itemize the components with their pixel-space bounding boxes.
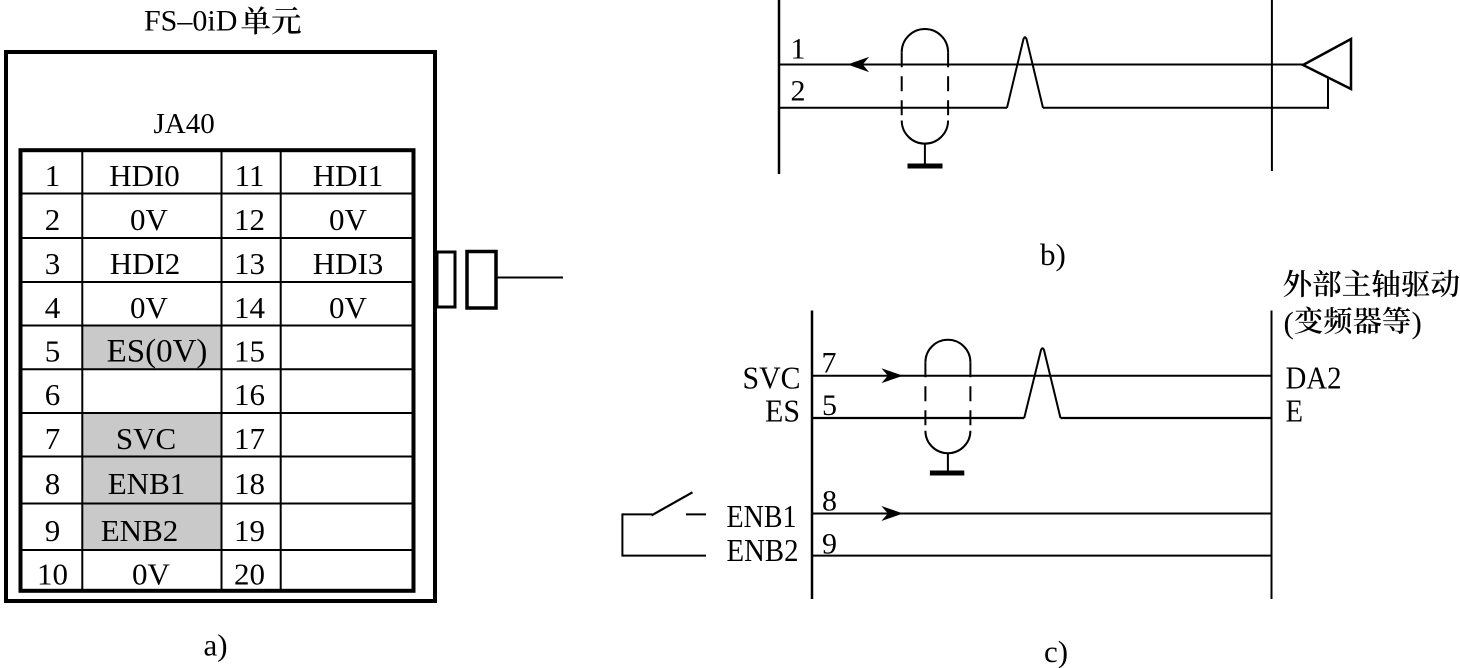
label external spindle drive <box>1284 270 1460 298</box>
svg-text:HDI0: HDI0 <box>109 158 180 193</box>
wire ES right <box>1061 417 1272 419</box>
svg-text:8: 8 <box>45 466 61 501</box>
svg-text:20: 20 <box>234 556 265 591</box>
svg-text:14: 14 <box>234 290 266 325</box>
wire ES left <box>812 417 1024 419</box>
connector JA40 shaded pins 5,7,8,9 <box>82 326 221 551</box>
ground bar (b) <box>908 164 943 169</box>
wire pin2 (b) left <box>779 107 1007 109</box>
connector plug outer rect <box>467 252 496 309</box>
svg-text:JA40: JA40 <box>154 108 215 140</box>
wire pin1 (b) <box>779 64 1303 66</box>
svg-text:2: 2 <box>45 202 61 237</box>
bus drive side (b) <box>1271 0 1273 171</box>
svg-text:FS–0iD: FS–0iD <box>144 5 237 38</box>
ground bar (c) <box>930 471 964 476</box>
svg-text:10: 10 <box>37 556 68 591</box>
svg-text:0V: 0V <box>130 290 169 325</box>
svg-text:0V: 0V <box>329 290 368 325</box>
svg-text:9: 9 <box>45 513 61 548</box>
cable shield (b) <box>902 29 948 144</box>
ground stem (b) <box>924 144 926 164</box>
svg-text:SVC: SVC <box>116 421 176 456</box>
svg-text:ENB2: ENB2 <box>101 513 179 548</box>
svg-text:a): a) <box>204 628 228 663</box>
ground stem (c) <box>947 453 949 470</box>
svg-text:c): c) <box>1044 634 1068 668</box>
svg-text:7: 7 <box>822 347 837 380</box>
connector JA40 pin table grid <box>21 150 414 591</box>
wire pin2 up to amplifier <box>1327 77 1329 109</box>
title FS-0iD unit <box>144 5 301 38</box>
svg-text:ENB1: ENB1 <box>727 498 797 534</box>
svg-text:): ) <box>1412 305 1422 340</box>
svg-text:5: 5 <box>45 333 61 368</box>
cable shield (c) <box>925 340 970 453</box>
svg-text:DA2: DA2 <box>1286 360 1342 396</box>
svg-text:HDI3: HDI3 <box>313 246 384 281</box>
svg-text:b): b) <box>1040 237 1066 272</box>
svg-text:7: 7 <box>45 421 61 456</box>
cable break symbol (b) <box>1007 37 1043 108</box>
amplifier triangle (b) <box>1303 39 1351 89</box>
svg-text:ENB2: ENB2 <box>727 532 799 568</box>
svg-text:12: 12 <box>234 202 265 237</box>
svg-text:(: ( <box>1284 305 1294 340</box>
svg-text:HDI1: HDI1 <box>313 158 384 193</box>
wire SVC <box>812 375 1272 377</box>
svg-text:15: 15 <box>234 333 265 368</box>
svg-text:E: E <box>1286 393 1304 429</box>
switch S1 enable contact <box>622 492 706 556</box>
svg-text:18: 18 <box>234 466 265 501</box>
svg-text:ES: ES <box>765 393 800 429</box>
svg-text:11: 11 <box>235 158 265 193</box>
cable break symbol (c) <box>1024 348 1060 418</box>
svg-text:0V: 0V <box>329 202 368 237</box>
svg-text:HDI2: HDI2 <box>110 246 181 281</box>
connector JA40 pin numbers and signal names <box>37 158 383 592</box>
wire ENB2 <box>812 555 1272 557</box>
wire cable stub <box>496 277 563 279</box>
connector plug inner rect <box>437 252 455 307</box>
wire ENB1 <box>812 513 1272 515</box>
svg-text:4: 4 <box>45 290 61 325</box>
svg-text:13: 13 <box>234 246 265 281</box>
svg-text:19: 19 <box>234 513 265 548</box>
svg-text:3: 3 <box>45 246 61 281</box>
svg-text:SVC: SVC <box>743 360 801 396</box>
arrow left on wire pin1 <box>849 58 868 71</box>
bus CNC side (b) <box>778 0 781 174</box>
label inverter etc <box>1284 305 1422 340</box>
bus drive side (c) <box>1271 311 1273 600</box>
svg-text:6: 6 <box>45 377 61 412</box>
svg-text:1: 1 <box>791 32 806 65</box>
svg-text:ES(0V): ES(0V) <box>107 333 208 369</box>
svg-text:ENB1: ENB1 <box>108 466 186 501</box>
svg-text:0V: 0V <box>130 202 169 237</box>
svg-text:0V: 0V <box>132 556 171 591</box>
bus CNC side (c) <box>811 311 814 600</box>
svg-text:2: 2 <box>791 74 806 107</box>
arrow right on wire SVC <box>883 369 902 382</box>
arrow right on wire ENB1 <box>883 507 902 520</box>
svg-text:1: 1 <box>45 158 61 193</box>
unit box FS-0iD <box>6 52 435 601</box>
wire pin2 (b) right <box>1043 107 1329 109</box>
svg-text:17: 17 <box>234 421 265 456</box>
svg-text:16: 16 <box>234 377 265 412</box>
